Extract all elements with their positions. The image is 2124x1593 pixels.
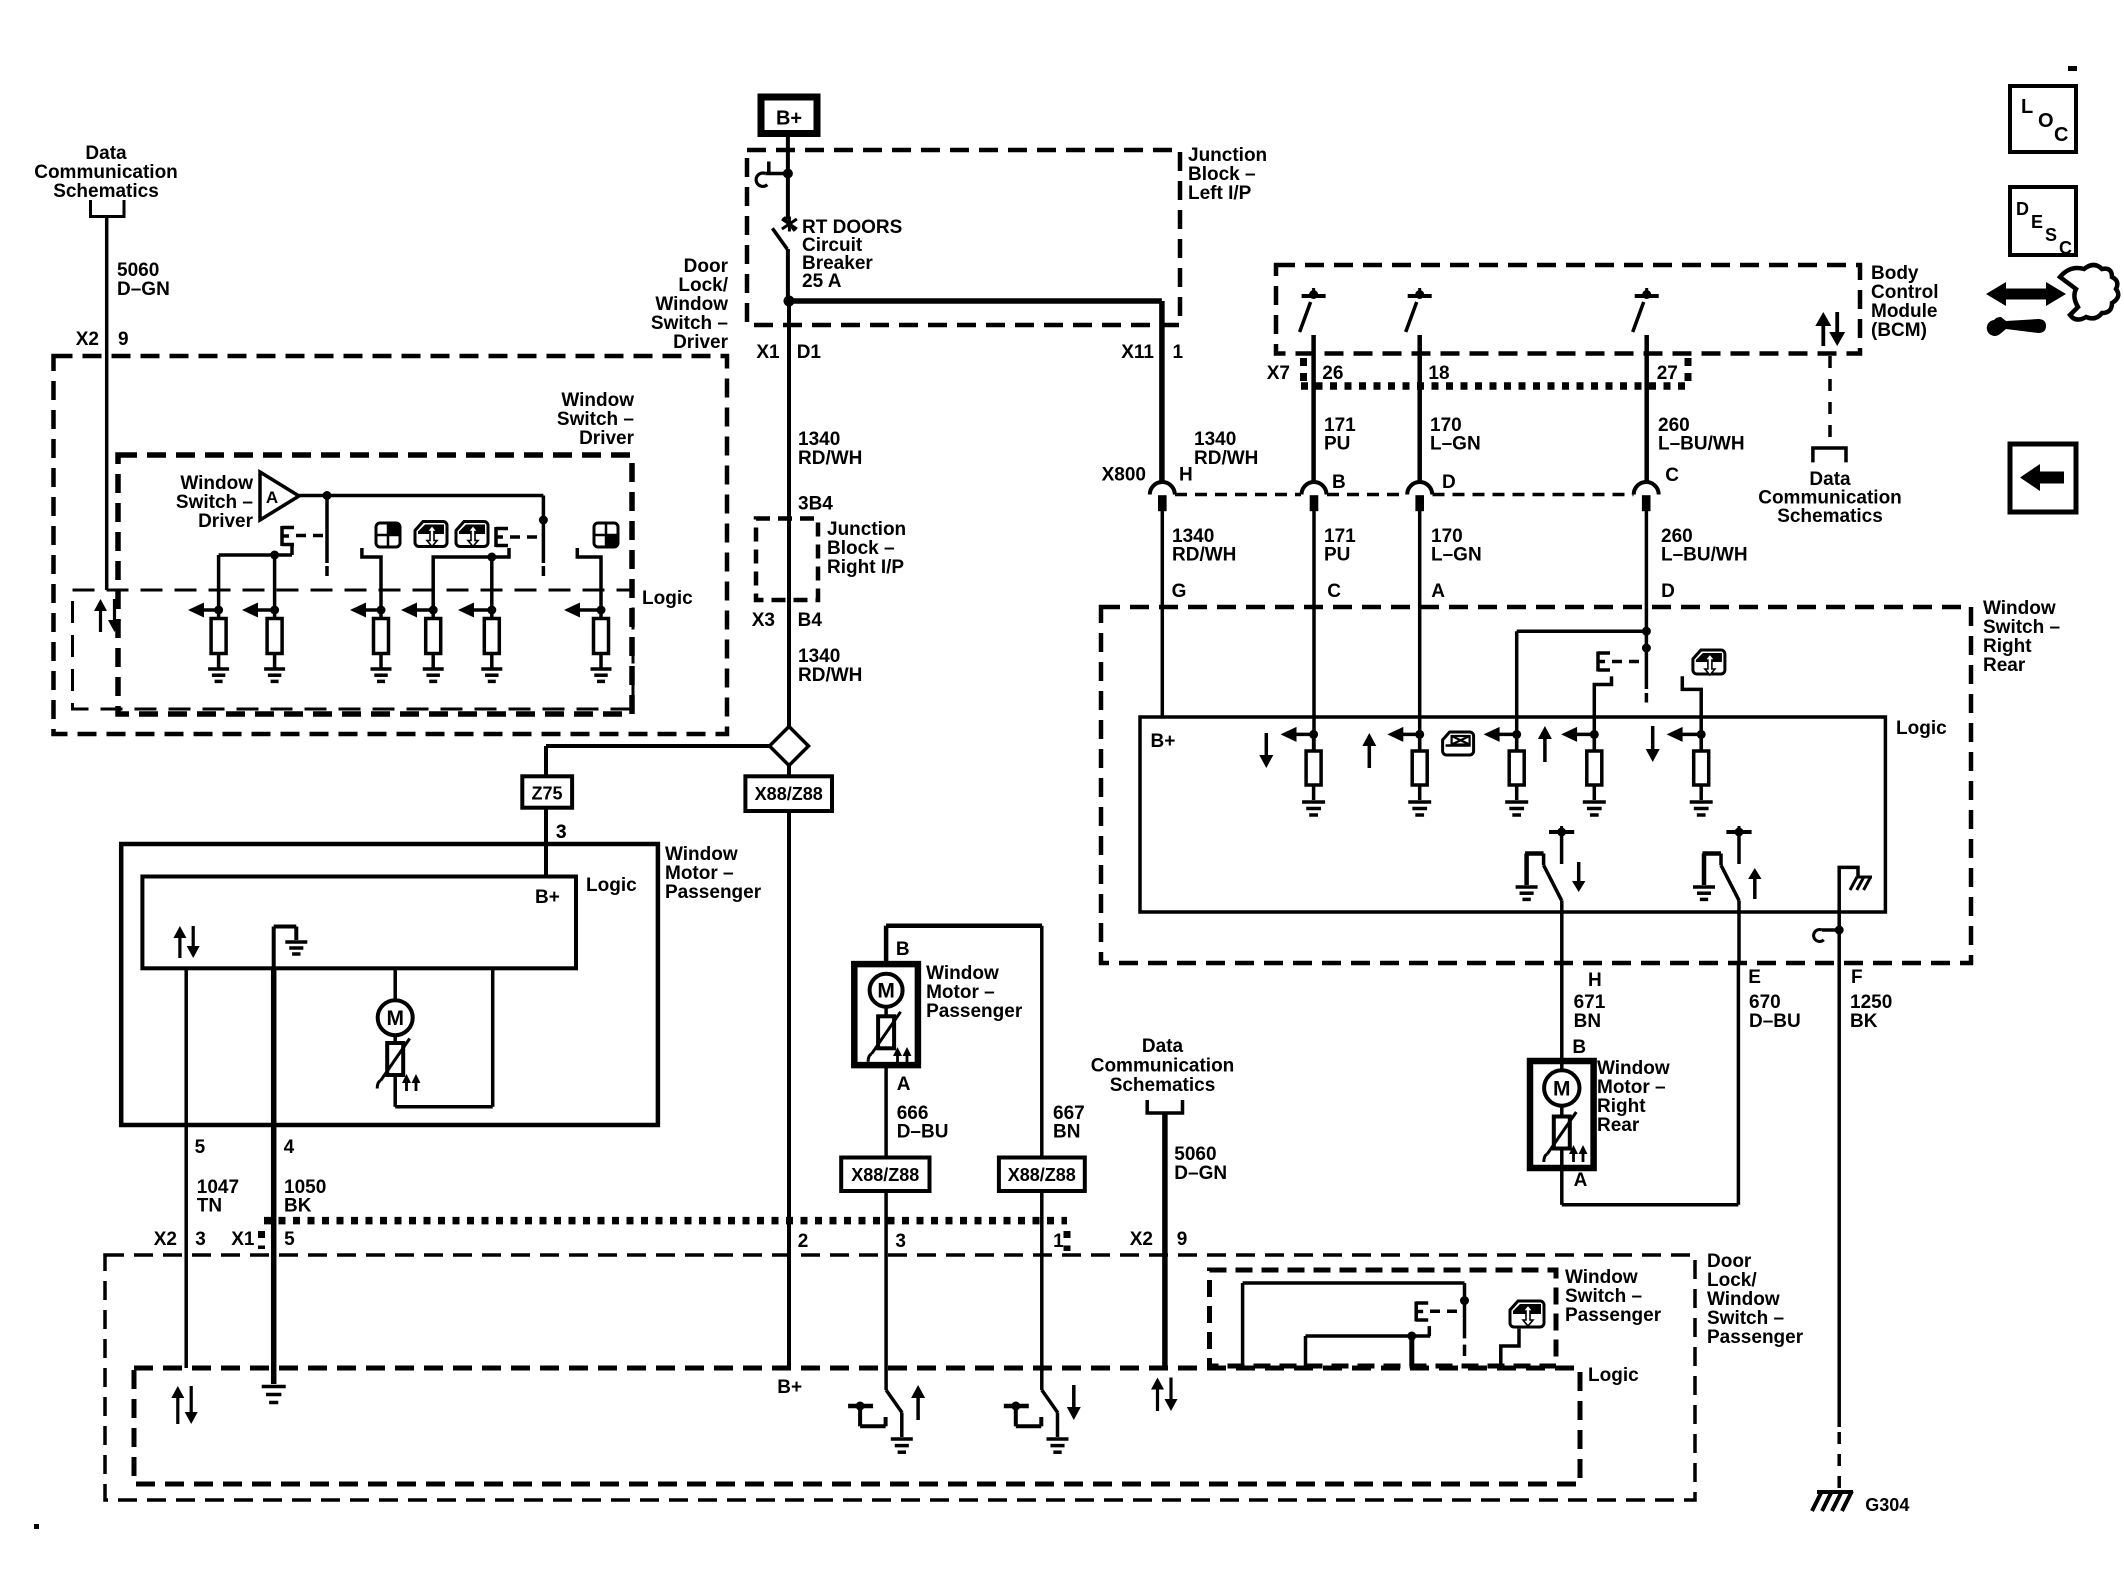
svg-text:M: M — [386, 1007, 404, 1030]
svg-text:Schematics: Schematics — [1110, 1075, 1216, 1096]
svg-text:D–GN: D–GN — [1174, 1163, 1227, 1184]
svg-text:D: D — [1661, 581, 1675, 602]
svg-text:3: 3 — [195, 1229, 206, 1250]
svg-text:Passenger: Passenger — [665, 882, 762, 903]
svg-text:X11: X11 — [1121, 342, 1154, 363]
svg-text:Logic: Logic — [586, 875, 637, 896]
svg-text:BK: BK — [284, 1196, 312, 1217]
svg-text:RD/WH: RD/WH — [798, 665, 862, 686]
svg-text:PU: PU — [1324, 545, 1350, 566]
svg-text:D: D — [2016, 199, 2029, 219]
svg-text:Junction: Junction — [1188, 145, 1267, 166]
svg-text:Passenger: Passenger — [1565, 1305, 1662, 1326]
svg-text:Window: Window — [180, 473, 253, 494]
svg-text:1250: 1250 — [1850, 992, 1892, 1013]
svg-text:M: M — [1553, 1078, 1571, 1101]
svg-text:X800: X800 — [1102, 465, 1146, 486]
svg-text:Window: Window — [561, 390, 634, 411]
svg-text:BN: BN — [1574, 1011, 1601, 1032]
svg-text:2: 2 — [798, 1231, 809, 1252]
svg-text:S: S — [2045, 225, 2057, 245]
svg-text:B+: B+ — [776, 108, 802, 130]
svg-text:F: F — [1851, 967, 1863, 988]
svg-text:RD/WH: RD/WH — [1194, 448, 1258, 469]
svg-text:X88/Z88: X88/Z88 — [755, 784, 823, 804]
svg-text:Switch –: Switch – — [176, 492, 253, 513]
svg-text:X88/Z88: X88/Z88 — [1008, 1165, 1076, 1185]
svg-text:Logic: Logic — [642, 588, 693, 609]
svg-text:26: 26 — [1322, 363, 1343, 384]
svg-text:Block –: Block – — [1188, 164, 1256, 185]
svg-text:Passenger: Passenger — [1707, 1327, 1804, 1348]
svg-text:Switch –: Switch – — [651, 313, 728, 334]
svg-text:Window: Window — [1707, 1289, 1780, 1310]
svg-text:Driver: Driver — [579, 428, 635, 449]
svg-text:25 A: 25 A — [802, 271, 842, 292]
svg-text:18: 18 — [1428, 363, 1449, 384]
svg-text:D: D — [1442, 472, 1456, 493]
svg-text:X7: X7 — [1267, 363, 1290, 384]
svg-text:27: 27 — [1657, 363, 1678, 384]
svg-text:X2: X2 — [1130, 1229, 1153, 1250]
svg-text:RD/WH: RD/WH — [798, 448, 862, 469]
svg-text:BK: BK — [1850, 1011, 1878, 1032]
svg-text:5060: 5060 — [117, 260, 159, 281]
svg-text:D1: D1 — [797, 342, 822, 363]
svg-text:Switch –: Switch – — [1983, 617, 2060, 638]
svg-text:Switch –: Switch – — [1565, 1286, 1642, 1307]
svg-text:Rear: Rear — [1597, 1115, 1640, 1136]
svg-text:L–GN: L–GN — [1430, 434, 1481, 455]
svg-text:Junction: Junction — [827, 519, 906, 540]
svg-text:A: A — [1574, 1170, 1588, 1191]
svg-text:Data: Data — [1142, 1036, 1184, 1057]
svg-text:1340: 1340 — [798, 429, 840, 450]
svg-text:Z75: Z75 — [531, 784, 562, 804]
svg-text:Window: Window — [655, 294, 728, 315]
svg-text:Lock/: Lock/ — [678, 275, 728, 296]
svg-text:B4: B4 — [798, 610, 823, 631]
svg-text:Communication: Communication — [34, 162, 178, 183]
svg-text:3: 3 — [895, 1231, 906, 1252]
svg-text:Window: Window — [1983, 598, 2056, 619]
svg-text:Right: Right — [1983, 636, 2032, 657]
svg-text:G: G — [1172, 581, 1187, 602]
svg-text:Schematics: Schematics — [53, 181, 159, 202]
svg-text:L: L — [2021, 96, 2033, 118]
svg-text:Left I/P: Left I/P — [1188, 183, 1252, 204]
svg-text:Window: Window — [926, 963, 999, 984]
svg-text:5: 5 — [195, 1137, 206, 1158]
svg-text:B+: B+ — [535, 887, 560, 908]
svg-text:C: C — [2059, 238, 2072, 258]
svg-text:Module: Module — [1871, 301, 1938, 322]
svg-text:B: B — [896, 939, 910, 960]
svg-text:Communication: Communication — [1091, 1056, 1235, 1077]
svg-text:A: A — [1431, 581, 1445, 602]
svg-text:671: 671 — [1574, 992, 1606, 1013]
svg-text:B: B — [1572, 1037, 1586, 1058]
svg-text:H: H — [1588, 970, 1602, 991]
svg-text:C: C — [2054, 124, 2068, 146]
svg-text:H: H — [1179, 465, 1193, 486]
svg-text:B: B — [1332, 472, 1346, 493]
svg-text:1: 1 — [1053, 1231, 1064, 1252]
svg-text:Motor –: Motor – — [1597, 1077, 1666, 1098]
svg-text:Motor –: Motor – — [665, 863, 734, 884]
svg-text:M: M — [877, 980, 895, 1003]
svg-text:RD/WH: RD/WH — [1172, 545, 1236, 566]
svg-text:X3: X3 — [752, 610, 775, 631]
svg-text:Driver: Driver — [673, 332, 729, 353]
svg-text:Driver: Driver — [198, 511, 254, 532]
svg-text:X1: X1 — [231, 1229, 255, 1250]
svg-text:E: E — [2031, 212, 2043, 232]
svg-text:Schematics: Schematics — [1777, 506, 1883, 527]
svg-text:L–BU/WH: L–BU/WH — [1661, 545, 1748, 566]
svg-text:B+: B+ — [1151, 731, 1176, 752]
svg-text:X88/Z88: X88/Z88 — [851, 1165, 919, 1185]
svg-text:Passenger: Passenger — [926, 1001, 1023, 1022]
svg-text:D–BU: D–BU — [1749, 1011, 1801, 1032]
svg-text:9: 9 — [118, 329, 129, 350]
svg-text:X1: X1 — [756, 342, 780, 363]
svg-text:L–GN: L–GN — [1431, 545, 1482, 566]
svg-text:Switch –: Switch – — [557, 409, 634, 430]
svg-text:Block –: Block – — [827, 538, 895, 559]
svg-text:9: 9 — [1177, 1229, 1188, 1250]
svg-text:X2: X2 — [154, 1229, 177, 1250]
svg-text:D–GN: D–GN — [117, 279, 170, 300]
svg-text:Motor –: Motor – — [926, 982, 995, 1003]
svg-text:Right: Right — [1597, 1096, 1646, 1117]
svg-text:L–BU/WH: L–BU/WH — [1658, 434, 1745, 455]
svg-text:Right I/P: Right I/P — [827, 557, 904, 578]
svg-text:D–BU: D–BU — [897, 1122, 949, 1143]
svg-text:5: 5 — [284, 1229, 295, 1250]
svg-text:Data: Data — [85, 143, 127, 164]
svg-text:Switch –: Switch – — [1707, 1308, 1784, 1329]
svg-text:Control: Control — [1871, 282, 1939, 303]
svg-text:(BCM): (BCM) — [1871, 320, 1927, 341]
svg-text:C: C — [1665, 465, 1679, 486]
svg-text:Body: Body — [1871, 263, 1919, 284]
svg-text:Rear: Rear — [1983, 655, 2026, 676]
svg-text:E: E — [1748, 967, 1761, 988]
svg-text:O: O — [2038, 110, 2054, 132]
svg-text:PU: PU — [1324, 434, 1350, 455]
svg-text:BN: BN — [1053, 1122, 1080, 1143]
svg-text:Logic: Logic — [1588, 1365, 1639, 1386]
svg-text:Logic: Logic — [1896, 718, 1947, 739]
svg-text:Door: Door — [1707, 1251, 1752, 1272]
svg-text:G304: G304 — [1865, 1495, 1909, 1515]
svg-text:Window: Window — [1565, 1267, 1638, 1288]
svg-text:B+: B+ — [777, 1377, 802, 1398]
svg-text:670: 670 — [1749, 992, 1781, 1013]
svg-text:Lock/: Lock/ — [1707, 1270, 1757, 1291]
svg-text:A: A — [266, 488, 278, 507]
svg-text:1340: 1340 — [798, 646, 840, 667]
svg-text:4: 4 — [284, 1137, 295, 1158]
svg-text:C: C — [1327, 581, 1341, 602]
svg-text:3: 3 — [556, 822, 567, 843]
svg-text:A: A — [897, 1074, 911, 1095]
svg-text:TN: TN — [197, 1196, 222, 1217]
svg-text:1340: 1340 — [1194, 429, 1236, 450]
svg-text:Window: Window — [665, 844, 738, 865]
svg-text:X2: X2 — [76, 329, 99, 350]
svg-text:3B4: 3B4 — [798, 494, 833, 515]
svg-text:Door: Door — [684, 256, 729, 277]
svg-text:5060: 5060 — [1174, 1144, 1216, 1165]
svg-text:1: 1 — [1173, 342, 1184, 363]
svg-text:Window: Window — [1597, 1058, 1670, 1079]
